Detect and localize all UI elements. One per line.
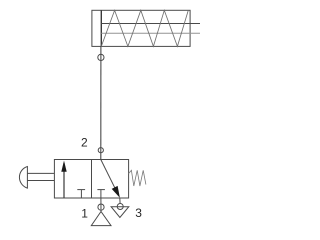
cylinder C1 piston rod upper line <box>101 23 200 25</box>
valve V1 return spring <box>129 170 146 186</box>
valve V1 position divider <box>91 160 93 199</box>
valve V1 right box diagonal arrowhead <box>112 186 120 198</box>
cylinder C1 piston rod lower line <box>101 32 200 34</box>
valve V1 right box blocked port T <box>100 190 102 198</box>
push button actuator cap <box>19 167 27 189</box>
valve V1 left box flow arrowhead <box>61 161 66 172</box>
valve V1 port 1 connection circle <box>98 204 104 210</box>
wire cylinder port to valve port 2 <box>100 46 102 159</box>
valve V1 left box blocked port T <box>80 190 82 198</box>
cylinder C1 port connection circle <box>98 54 104 60</box>
svg-text:1: 1 <box>81 207 88 221</box>
push button stem upper line <box>27 172 54 174</box>
svg-text:3: 3 <box>135 206 142 220</box>
valve V1 body <box>54 160 128 199</box>
valve V1 port 2 connection circle <box>98 148 103 153</box>
cylinder C1 body <box>92 10 190 46</box>
valve V1 right box diagonal flow line 2 to 3 <box>101 160 117 192</box>
exhaust triangle at port 3 <box>111 207 129 218</box>
valve V1 port 3 stub <box>119 198 121 204</box>
pressure source triangle at port 1 <box>91 212 111 226</box>
cylinder C1 piston <box>100 10 102 46</box>
cylinder C1 return spring <box>101 10 188 46</box>
valve V1 port 3 connection circle <box>117 204 123 210</box>
valve V1 port 1 stub <box>100 198 102 212</box>
valve V1 left box flow arrow line <box>63 163 65 198</box>
push button stem lower line <box>27 180 54 182</box>
svg-text:2: 2 <box>81 136 88 150</box>
